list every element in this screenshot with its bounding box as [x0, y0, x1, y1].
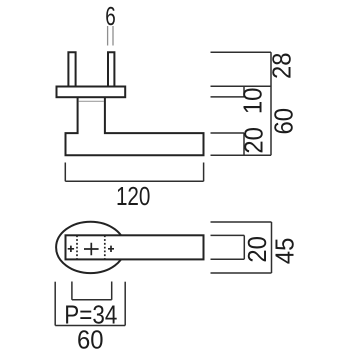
- svg-text:20: 20: [242, 236, 272, 263]
- dim 60 line (bottom): [55, 325, 125, 327]
- dim P=34 left extension: [71, 282, 73, 300]
- svg-text:6: 6: [105, 1, 116, 31]
- svg-text:60: 60: [268, 108, 298, 135]
- dim 120 line: [65, 180, 203, 182]
- extension line ellipse bottom: [211, 272, 272, 274]
- rose ellipse (top view): [56, 222, 125, 273]
- dim P=34 right extension: [111, 282, 113, 300]
- dim P=34 line: [72, 299, 112, 301]
- right screw cross: [108, 246, 114, 252]
- extension line plate bottom: [211, 96, 245, 98]
- extension line bar top: [211, 234, 245, 236]
- svg-text:20: 20: [238, 127, 268, 154]
- extension line prong top: [211, 51, 272, 53]
- lever bar (top view): [66, 235, 204, 259]
- extension line lever bottom: [211, 154, 272, 156]
- svg-text:60: 60: [77, 324, 104, 350]
- extension line bar bottom: [211, 258, 245, 260]
- outer dimension line 28/60: [270, 52, 272, 155]
- dim 60 left extension (bottom): [54, 282, 56, 326]
- right spindle prong: [108, 52, 114, 86]
- svg-text:10: 10: [237, 88, 267, 115]
- hidden line right (dashed): [104, 235, 106, 259]
- neck joint line (gray): [79, 100, 104, 102]
- dim 120 right extension: [203, 163, 205, 182]
- extension line ellipse top: [211, 221, 272, 223]
- svg-text:45: 45: [269, 238, 299, 265]
- dim 60 right extension (bottom): [124, 282, 126, 326]
- center spindle cross: [84, 243, 99, 256]
- svg-text:120: 120: [116, 181, 151, 211]
- dimension line 10: [243, 86, 245, 97]
- rose plate (front view): [57, 87, 126, 98]
- dimension line 20: [243, 133, 245, 155]
- left spindle prong: [68, 52, 75, 86]
- dim 120 left extension: [64, 163, 66, 182]
- extension line lever top: [211, 132, 245, 134]
- lever handle outline with neck and step: [66, 98, 204, 156]
- dimension line 45: [271, 222, 273, 273]
- left screw cross: [68, 246, 74, 252]
- svg-text:28: 28: [267, 52, 297, 79]
- extension line plate top: [211, 85, 272, 87]
- extension lines for dim 6 (gray): [107, 26, 109, 46]
- dimension line 20 (top view): [243, 235, 245, 259]
- hidden line left (dashed): [76, 235, 78, 259]
